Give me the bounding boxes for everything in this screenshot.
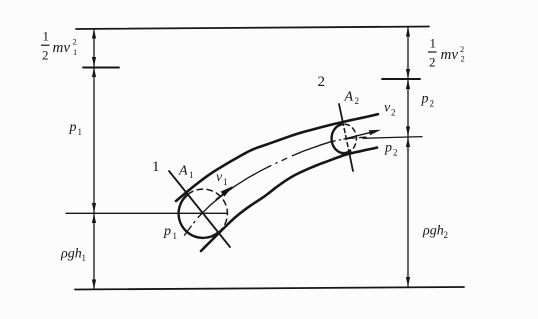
v2 velocity arrow shaft	[344, 132, 371, 139]
svg-text:p: p	[163, 224, 171, 239]
section line A2	[339, 104, 343, 122]
svg-text:ρgh: ρgh	[422, 224, 444, 239]
arrowhead up below level-1 line	[92, 214, 96, 224]
bottom datum line	[75, 287, 464, 290]
v1 velocity arrow	[217, 191, 229, 200]
svg-text:1: 1	[430, 36, 437, 51]
arrowhead up below right tick	[406, 80, 410, 90]
svg-text:2: 2	[460, 44, 464, 54]
svg-text:mv: mv	[53, 40, 71, 56]
p2 pressure arrowhead	[340, 149, 352, 155]
label 1/2 m v1^2	[41, 29, 77, 63]
svg-text:1: 1	[82, 253, 87, 263]
label 1/2 m v2^2	[428, 36, 465, 70]
right dimension line	[407, 27, 409, 287]
level-2 horizontal line (height of section 2)	[363, 137, 422, 139]
svg-text:2: 2	[429, 55, 436, 70]
svg-text:2: 2	[355, 96, 360, 106]
left dimension line	[93, 29, 95, 289]
svg-text:A: A	[344, 90, 354, 105]
level-1 horizontal line (height of section 1)	[66, 212, 227, 214]
pipe lower boundary	[201, 148, 377, 251]
svg-text:1: 1	[78, 127, 83, 137]
svg-text:v: v	[384, 101, 391, 116]
arrowhead down at left tick (above)	[92, 57, 96, 67]
arrowhead down above level-1 line	[92, 203, 96, 213]
svg-text:1: 1	[73, 47, 77, 57]
centerline (dash-dot stream axis)	[185, 137, 367, 235]
svg-text:2: 2	[461, 54, 465, 64]
section 1 cross-section ellipse: solid arc	[179, 195, 219, 238]
svg-text:2: 2	[430, 99, 435, 109]
svg-text:2: 2	[393, 148, 398, 158]
svg-text:1: 1	[152, 159, 160, 175]
section line A1	[169, 171, 230, 247]
section 1 cross-section ellipse: dashed far arc	[187, 189, 227, 232]
left tick mark	[83, 67, 119, 69]
svg-text:ρgh: ρgh	[60, 247, 82, 262]
arrowhead up below left tick	[92, 68, 96, 78]
top reference line	[76, 27, 429, 30]
pipe upper boundary	[176, 114, 378, 201]
svg-text:p: p	[69, 120, 77, 135]
arrowhead up at top line left	[92, 29, 96, 39]
arrowhead down at bottom line left	[92, 280, 96, 290]
svg-text:A: A	[178, 164, 188, 179]
arrowhead down at bottom line right	[406, 277, 410, 287]
svg-text:1: 1	[189, 170, 194, 180]
svg-text:2: 2	[42, 48, 49, 63]
svg-text:2: 2	[73, 37, 77, 47]
section 2 cross-section ellipse: dashed far arc	[341, 124, 356, 153]
svg-text:1: 1	[43, 29, 50, 44]
right tick mark	[382, 78, 420, 80]
svg-text:2: 2	[444, 230, 449, 240]
svg-text:p: p	[384, 141, 392, 156]
svg-text:v: v	[216, 170, 223, 185]
arrowhead up at top line right	[406, 27, 410, 37]
svg-text:1: 1	[223, 177, 228, 187]
arrowhead down at right tick (above)	[406, 69, 410, 79]
svg-text:p: p	[421, 92, 429, 107]
section 2 cross-section ellipse: solid arc	[332, 124, 347, 153]
arrowhead down above level-2 line	[406, 127, 410, 137]
arrowhead up below level-2 line	[406, 138, 410, 148]
v2 velocity arrowhead	[369, 130, 381, 135]
svg-text:mv: mv	[441, 47, 459, 63]
svg-text:1: 1	[173, 231, 178, 241]
svg-text:2: 2	[318, 74, 326, 90]
svg-text:2: 2	[391, 108, 396, 118]
